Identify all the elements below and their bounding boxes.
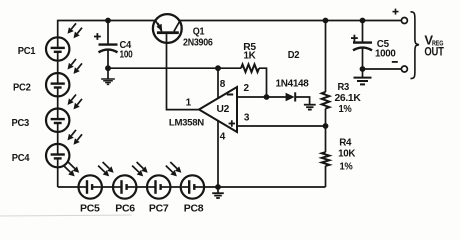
junction: C4 bottom ground node (105, 65, 111, 71)
wire: left rail through PC1-PC4 (57, 20, 59, 187)
svg-text:R4: R4 (339, 137, 352, 148)
diode D2 (286, 93, 295, 101)
svg-text:3: 3 (244, 113, 250, 124)
photocell PC1 (46, 37, 69, 60)
svg-text:2N3906: 2N3906 (183, 38, 213, 49)
svg-text:PC6: PC6 (115, 204, 135, 215)
wire: pin 3 to R3/R4 divider tap (237, 125, 326, 127)
photocell PC4 (46, 144, 69, 167)
wire: Q1 base down and over to op-amp pin 1 (167, 34, 200, 110)
C4 plus sign (94, 36, 101, 38)
light arrows PC4 (71, 130, 76, 136)
junction: R3/R4 divider tap (323, 123, 329, 129)
svg-text:R3: R3 (337, 82, 349, 93)
junction: bottom rail ground (215, 184, 221, 190)
svg-text:2: 2 (243, 83, 249, 94)
svg-text:10K: 10K (338, 149, 356, 160)
resistor R3 (322, 92, 330, 109)
svg-text:8: 8 (220, 79, 226, 90)
photocell PC7 (147, 175, 170, 198)
light arrows PC5 (64, 166, 71, 173)
wire: op-amp pin 8 stub (217, 68, 219, 98)
ground at D2 cathode (304, 104, 316, 106)
scan artifact line bottom left (0, 215, 132, 216)
svg-text:LM358N: LM358N (169, 118, 204, 129)
wire: C5 ground stub (362, 69, 364, 77)
+ output terminal (401, 18, 407, 24)
svg-text:26.1K: 26.1K (335, 93, 362, 104)
output brace (411, 12, 420, 79)
svg-text:100: 100 (120, 49, 134, 60)
svg-text:1%: 1% (340, 162, 353, 173)
wire: pin 2 to D2 anode (237, 96, 286, 98)
wire: top rail left segment (solar array + to Q1 emitter) (58, 20, 157, 22)
- output terminal (401, 66, 407, 72)
wire: C5 branch from rail (362, 21, 364, 43)
svg-text:PC1: PC1 (18, 46, 36, 57)
svg-text:D2: D2 (288, 50, 300, 61)
svg-text:1000: 1000 (375, 49, 396, 60)
wire: tap node to R4 top lead (325, 126, 327, 152)
svg-text:1N4148: 1N4148 (276, 79, 310, 90)
light arrows PC6 (98, 166, 105, 173)
svg-text:PC5: PC5 (80, 204, 100, 215)
wire: R4 bottom lead to bottom rail (325, 166, 327, 187)
- output minus sign (392, 61, 398, 63)
wire: - output wire (363, 68, 402, 70)
junction: C4 top on rail (105, 18, 111, 24)
light arrows PC1 (71, 23, 76, 29)
wire: op-amp pin 4 stub to bottom rail (217, 121, 219, 188)
capacitor C5 (353, 41, 372, 43)
junction: C5 bottom / - output (360, 66, 366, 72)
svg-text:Q1: Q1 (193, 27, 205, 38)
junction: pin8/R5 node (215, 65, 221, 71)
wire: C5 bottom to - output node (362, 48, 364, 69)
U2 inverting input dash (227, 94, 233, 96)
C5 plus sign (351, 37, 358, 39)
photocell PC6 (113, 175, 136, 198)
transistor Q1 (153, 14, 182, 43)
ground at C4 node (107, 68, 109, 79)
resistor R5 (241, 64, 259, 72)
wire: C4 bottom to ground node (107, 50, 109, 68)
photocell PC2 (46, 73, 69, 96)
ground on bottom rail (pin 4 node) (217, 187, 219, 193)
resistor R4 (322, 152, 330, 166)
junction: C5 top on rail (360, 18, 366, 24)
junction: pin2/R5/D2 node (264, 94, 270, 100)
wire: bottom rail through PC5-PC8 to R4 (58, 186, 326, 188)
junction: R3 top on rail (323, 18, 329, 24)
light arrows PC8 (166, 166, 173, 173)
svg-text:4: 4 (220, 131, 226, 142)
light arrows PC7 (132, 166, 139, 173)
svg-text:1: 1 (186, 97, 192, 108)
wire: ground node to R5 left / pin 8 node (108, 67, 241, 69)
svg-text:PC2: PC2 (13, 83, 31, 94)
svg-text:PC3: PC3 (11, 118, 29, 129)
wire: top rail right segment (Q1 collector to + output) (179, 20, 402, 22)
U2 non-inverting input plus (229, 123, 235, 125)
ground at C5 / - output (354, 77, 372, 79)
svg-text:U2: U2 (217, 104, 230, 115)
wire: D2 cathode to ground stub (296, 97, 310, 104)
photocell PC5 (79, 175, 102, 198)
svg-text:OUT: OUT (424, 45, 444, 59)
light arrows PC3 (71, 95, 76, 101)
wire: R3 bottom lead to tap node (325, 109, 327, 127)
svg-text:1K: 1K (244, 51, 257, 62)
op-amp U2 (199, 87, 237, 132)
+ output plus sign (393, 11, 399, 13)
svg-text:PC4: PC4 (12, 153, 30, 164)
wire: C4 top branch (107, 21, 109, 45)
svg-text:PC7: PC7 (149, 204, 169, 215)
svg-text:PC8: PC8 (184, 204, 204, 215)
svg-text:1%: 1% (339, 104, 352, 115)
wire: R3 top lead from rail (325, 21, 327, 93)
photocell PC3 (46, 109, 69, 132)
wire: R5 right lead and drop to pin 2 node (259, 68, 267, 97)
light arrows PC2 (71, 59, 76, 65)
capacitor C4 (99, 43, 118, 45)
photocell PC8 (181, 175, 204, 198)
